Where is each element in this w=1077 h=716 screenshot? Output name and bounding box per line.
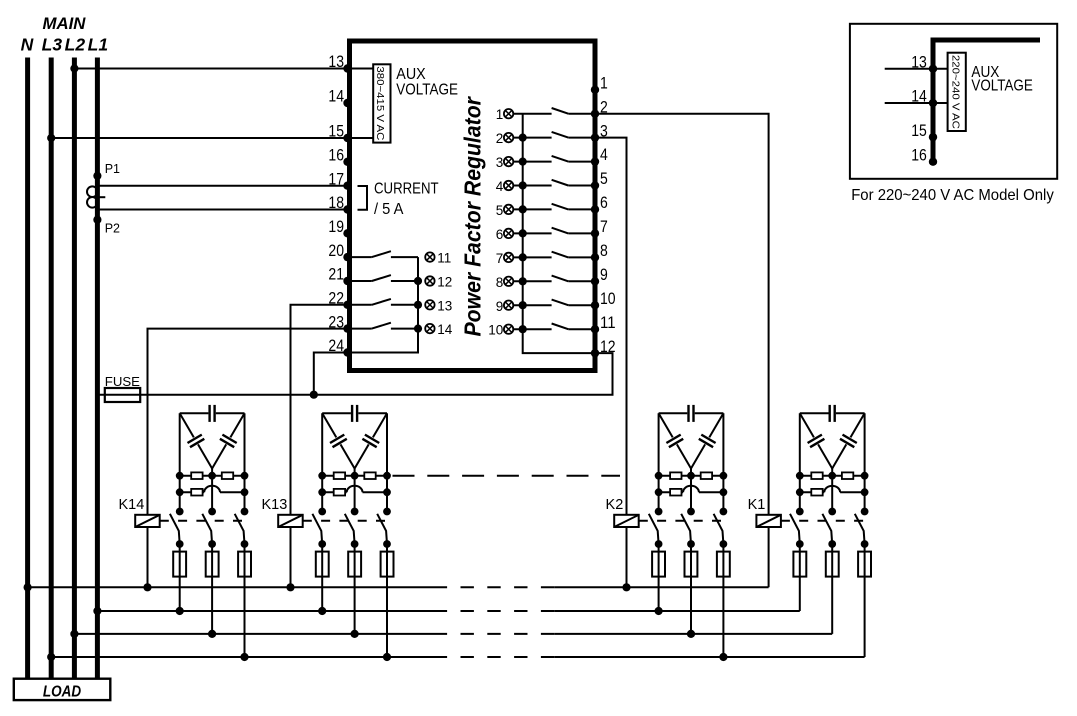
svg-text:21: 21 bbox=[328, 266, 344, 284]
wire bank 4 left leg vertical bbox=[799, 413, 801, 511]
wire common bus contacts 11-14 to pin 24 bbox=[350, 257, 419, 352]
wire bank 3 left leg vertical bbox=[658, 413, 660, 511]
linkage K2 (dashed) bbox=[639, 520, 726, 522]
label K13 bbox=[261, 497, 287, 513]
switch contact K2-2 bbox=[681, 508, 695, 548]
node bank 1 leg 1 to bus bbox=[176, 607, 184, 615]
pin 13 bbox=[328, 53, 351, 73]
fuse/reactor bank 4 leg 3 bbox=[858, 544, 871, 657]
contactor coil K13 bbox=[278, 515, 303, 527]
capacitor C2c (diagonal) bbox=[355, 413, 387, 468]
relay contact 7 (pin 8) bbox=[513, 252, 595, 258]
relay contact 12 (pin 21) bbox=[350, 275, 419, 281]
svg-text:LOAD: LOAD bbox=[43, 684, 82, 701]
wire CT to pin 17 bbox=[97, 185, 350, 187]
switch contact K14-2 bbox=[202, 508, 216, 548]
pin 24 bbox=[328, 337, 351, 356]
relay contact 14 (pin 23) bbox=[350, 323, 419, 329]
contactor coil K1 bbox=[756, 515, 781, 527]
svg-text:K1: K1 bbox=[748, 497, 766, 513]
wire L2 line bbox=[72, 58, 77, 679]
discharge resistor R1c (row 2) with wire hop bbox=[176, 486, 249, 496]
wire bus L2 feeder bbox=[70, 630, 832, 638]
svg-text:K13: K13 bbox=[261, 497, 287, 513]
wire bus L3 feeder bbox=[47, 653, 865, 661]
svg-text:K2: K2 bbox=[606, 497, 624, 513]
svg-text:N: N bbox=[21, 35, 34, 55]
lamp terminal 7 bbox=[496, 251, 527, 266]
fuse/reactor bank 3 leg 3 bbox=[717, 544, 730, 657]
relay contact 1 (pin 2) bbox=[513, 108, 595, 114]
svg-text:L3: L3 bbox=[42, 35, 63, 55]
node bank 3 leg 1 to bus bbox=[655, 607, 663, 615]
contactor coil K2 bbox=[614, 515, 639, 527]
regulator box U1 Power Factor Regulator bbox=[350, 41, 596, 371]
capacitor C4b (diagonal) bbox=[800, 413, 832, 468]
svg-text:9: 9 bbox=[600, 266, 608, 284]
switch contact K13-3 bbox=[377, 508, 391, 548]
relay contact 13 (pin 22) bbox=[350, 299, 419, 305]
svg-text:Power Factor Regulator: Power Factor Regulator bbox=[460, 95, 486, 336]
label K2 bbox=[606, 497, 624, 513]
node junction L2 pin13 bbox=[70, 64, 78, 72]
label MAIN bbox=[43, 14, 87, 33]
svg-text:3: 3 bbox=[496, 155, 504, 170]
lamp terminal 10 bbox=[488, 323, 527, 338]
wire bus L1 feeder bbox=[93, 607, 800, 615]
relay contact 9 (pin 10) bbox=[513, 300, 595, 306]
lamp terminal 9 bbox=[496, 299, 527, 314]
svg-text:6: 6 bbox=[496, 227, 504, 242]
pin 15 bbox=[328, 123, 351, 143]
wire pin 24 to fuse line bbox=[314, 353, 350, 395]
inset aux voltage block 220-240 V AC bbox=[948, 53, 966, 131]
pin 18 bbox=[328, 194, 351, 214]
pin 9 bbox=[591, 266, 608, 285]
relay contact 6 (pin 7) bbox=[513, 228, 595, 234]
relay contact 2 (pin 3) bbox=[513, 132, 595, 138]
svg-text:13: 13 bbox=[437, 298, 452, 313]
node junction L3 pin15 bbox=[47, 134, 55, 142]
switch contact K14-3 bbox=[235, 508, 249, 548]
wire bank 3 center leg vertical bbox=[690, 469, 692, 512]
node P1 bbox=[93, 162, 120, 180]
svg-text:10: 10 bbox=[488, 323, 503, 338]
pin 4 bbox=[591, 146, 608, 166]
lamp terminal 3 bbox=[496, 155, 527, 170]
lamp terminal 8 bbox=[496, 275, 527, 290]
pin 14 bbox=[328, 88, 351, 108]
wire bank 1 right leg vertical bbox=[244, 413, 246, 511]
svg-text:5: 5 bbox=[496, 203, 504, 218]
switch contact K1-3 bbox=[855, 508, 869, 548]
discharge resistors R4a R4b (row 1) bbox=[796, 472, 869, 480]
fuse/reactor bank 1 leg 3 bbox=[238, 544, 251, 657]
contactor coil K14 bbox=[135, 515, 160, 527]
fuse/reactor bank 2 leg 3 bbox=[381, 544, 394, 657]
switch contact K1-1 bbox=[790, 508, 804, 548]
relay contact 11 (pin 20) bbox=[350, 251, 419, 257]
wire L3 line bbox=[49, 58, 54, 679]
switch contact K1-2 bbox=[822, 508, 836, 548]
svg-text:FUSE: FUSE bbox=[105, 374, 140, 389]
svg-text:7: 7 bbox=[600, 218, 608, 236]
switch contact K2-1 bbox=[649, 508, 663, 548]
wire pin 15 from L3 to aux voltage input bbox=[51, 137, 373, 139]
node bank 1 leg 2 to bus bbox=[208, 630, 216, 638]
pin 7 bbox=[591, 218, 608, 237]
svg-text:P2: P2 bbox=[105, 222, 120, 236]
pin 19 bbox=[328, 218, 351, 238]
discharge resistors R2a R2b (row 1) bbox=[318, 472, 391, 480]
wire bank 3 right leg vertical bbox=[722, 413, 724, 511]
switch contact K13-1 bbox=[312, 508, 326, 548]
wire bank 1 center leg vertical bbox=[211, 469, 213, 512]
svg-text:VOLTAGE: VOLTAGE bbox=[396, 81, 458, 98]
fuse/reactor bank 3 leg 1 bbox=[652, 544, 665, 611]
node coil K2 to bus N bbox=[622, 583, 630, 591]
pin 17 bbox=[328, 170, 351, 190]
capacitor C4a (top) bbox=[800, 405, 865, 422]
lamp terminal 11 bbox=[425, 251, 451, 266]
svg-text:7: 7 bbox=[496, 251, 504, 266]
relay contact 10 (pin 11) bbox=[513, 324, 595, 330]
lamp terminal 1 bbox=[496, 107, 514, 122]
svg-text:CURRENT: CURRENT bbox=[374, 180, 439, 197]
svg-text:4: 4 bbox=[496, 179, 504, 194]
svg-text:380~415 V AC: 380~415 V AC bbox=[374, 66, 386, 140]
svg-text:9: 9 bbox=[496, 299, 504, 314]
wire pin 13 from L2 to aux voltage input bbox=[74, 68, 373, 70]
svg-text:2: 2 bbox=[496, 131, 504, 146]
svg-text:/ 5 A: / 5 A bbox=[374, 201, 404, 218]
wire pin 23 to coil K14 bbox=[148, 329, 350, 588]
pin 6 bbox=[591, 194, 608, 213]
pin 21 bbox=[328, 266, 351, 285]
capacitor C3c (diagonal) bbox=[691, 413, 723, 468]
discharge resistors R3a R3b (row 1) bbox=[655, 472, 728, 480]
svg-text:L2: L2 bbox=[65, 35, 86, 55]
node bank 2 leg 1 to bus bbox=[318, 607, 326, 615]
wire bank 2 right leg vertical bbox=[386, 413, 388, 511]
relay contact 3 (pin 4) bbox=[513, 156, 595, 162]
label AUX VOLTAGE bbox=[396, 66, 458, 98]
capacitor C1b (diagonal) bbox=[180, 413, 212, 468]
fuse/reactor bank 4 leg 1 bbox=[793, 544, 806, 611]
fuse/reactor bank 1 leg 2 bbox=[206, 544, 219, 634]
lamp terminal 6 bbox=[496, 227, 527, 242]
svg-text:16: 16 bbox=[911, 146, 927, 164]
label L3 bbox=[42, 35, 63, 55]
svg-text:6: 6 bbox=[600, 194, 608, 212]
pin 23 bbox=[328, 313, 351, 333]
label CURRENT / 5 A with bracket bbox=[358, 180, 439, 218]
capacitor C1a (top) bbox=[180, 405, 245, 422]
label K14 bbox=[118, 497, 144, 513]
node pin 24 fuse line junction bbox=[310, 391, 318, 399]
lamp terminal 14 bbox=[414, 322, 453, 337]
svg-text:11: 11 bbox=[437, 251, 451, 266]
linkage K1 (dashed) bbox=[781, 520, 868, 522]
lamp terminal 4 bbox=[496, 179, 527, 194]
node coil K13 to bus N bbox=[286, 583, 294, 591]
aux voltage block 380-415 V AC bbox=[373, 64, 390, 142]
pin 12 bbox=[591, 338, 616, 358]
svg-text:4: 4 bbox=[600, 146, 608, 164]
node bank 3 leg 2 to bus bbox=[687, 630, 695, 638]
label K1 bbox=[748, 497, 766, 513]
pin 3 bbox=[591, 122, 608, 142]
svg-text:K14: K14 bbox=[118, 497, 144, 513]
wire bank 1 left leg vertical bbox=[179, 413, 181, 511]
discharge resistor R4c (row 2) with wire hop bbox=[796, 486, 869, 496]
svg-text:VOLTAGE: VOLTAGE bbox=[971, 78, 1032, 95]
pin 20 bbox=[328, 242, 351, 262]
label L1 bbox=[88, 35, 108, 55]
capacitor C3b (diagonal) bbox=[659, 413, 691, 468]
svg-text:For 220~240 V AC Model Only: For 220~240 V AC Model Only bbox=[851, 187, 1054, 204]
wire dashed continuation discharge row bbox=[393, 475, 621, 477]
capacitor C2b (diagonal) bbox=[322, 413, 354, 468]
svg-text:L1: L1 bbox=[88, 35, 108, 55]
fuse/reactor bank 3 leg 2 bbox=[685, 544, 698, 634]
fuse/reactor bank 2 leg 2 bbox=[348, 544, 361, 634]
svg-text:1: 1 bbox=[496, 107, 504, 122]
switch contact K2-3 bbox=[714, 508, 728, 548]
wire common bus contacts 1-10 to pin 12 bbox=[523, 114, 595, 353]
pin 5 bbox=[591, 170, 608, 190]
inset pin 16 bbox=[911, 146, 937, 166]
switch contact K14-1 bbox=[170, 508, 184, 548]
relay contact 5 (pin 6) bbox=[513, 204, 595, 210]
fuse FUSE bbox=[105, 374, 140, 402]
node bank 2 leg 3 to bus bbox=[383, 653, 391, 661]
inset box 220-240V model bbox=[850, 24, 1057, 179]
svg-text:P1: P1 bbox=[105, 162, 120, 176]
label N bbox=[21, 35, 34, 55]
discharge resistor R2c (row 2) with wire hop bbox=[318, 486, 391, 496]
capacitor C3a (top) bbox=[659, 405, 724, 422]
wire pin 3 to coil K2 bbox=[595, 138, 627, 588]
fuse/reactor bank 4 leg 2 bbox=[826, 544, 839, 634]
label L2 bbox=[65, 35, 86, 55]
lamp terminal 12 bbox=[414, 275, 452, 290]
inset wire pin 13 bbox=[885, 68, 948, 70]
wire bank 2 left leg vertical bbox=[321, 413, 323, 511]
pin 8 bbox=[591, 242, 608, 262]
switch contact K13-2 bbox=[345, 508, 359, 548]
discharge resistor R3c (row 2) with wire hop bbox=[655, 486, 728, 496]
node bank 2 leg 2 to bus bbox=[351, 630, 359, 638]
fuse/reactor bank 2 leg 1 bbox=[316, 544, 329, 611]
capacitor C1c (diagonal) bbox=[212, 413, 244, 468]
lamp terminal 2 bbox=[496, 131, 527, 146]
inset wire pin 14 bbox=[885, 102, 948, 104]
relay contact 4 (pin 5) bbox=[513, 180, 595, 186]
svg-text:20: 20 bbox=[328, 242, 344, 260]
node bank 3 leg 3 to bus bbox=[719, 653, 727, 661]
inset label AUX VOLTAGE bbox=[971, 64, 1032, 95]
discharge resistors R1a R1b (row 1) bbox=[176, 472, 249, 480]
wire pin 12 to fuse line bbox=[314, 353, 613, 395]
pin 10 bbox=[591, 290, 616, 310]
svg-text:14: 14 bbox=[328, 88, 344, 106]
label Power Factor Regulator bbox=[460, 95, 486, 336]
wire CT to pin 18 bbox=[97, 209, 350, 211]
capacitor C4c (diagonal) bbox=[832, 413, 864, 468]
svg-text:12: 12 bbox=[437, 275, 452, 290]
svg-text:10: 10 bbox=[600, 290, 616, 308]
wire bus N (coil return) bbox=[24, 583, 769, 591]
pin 16 bbox=[328, 147, 351, 167]
load box LOAD bbox=[14, 679, 111, 701]
node P2 bbox=[93, 216, 120, 236]
wire bank 4 right leg vertical bbox=[864, 413, 866, 511]
wire N line bbox=[25, 58, 30, 679]
svg-text:8: 8 bbox=[600, 242, 608, 260]
fuse/reactor bank 1 leg 1 bbox=[173, 544, 186, 611]
inset thick supply wire bbox=[933, 40, 1040, 162]
wire L1 line bbox=[95, 58, 100, 679]
wire bank 2 center leg vertical bbox=[354, 469, 356, 512]
svg-text:1: 1 bbox=[600, 74, 608, 92]
svg-text:MAIN: MAIN bbox=[43, 14, 87, 33]
svg-text:5: 5 bbox=[600, 170, 608, 188]
svg-text:19: 19 bbox=[328, 218, 344, 236]
relay contact 8 (pin 9) bbox=[513, 276, 595, 282]
linkage K14 (dashed) bbox=[160, 520, 248, 522]
wire pin 2 to coil K1 bbox=[595, 114, 769, 588]
svg-text:11: 11 bbox=[600, 314, 616, 332]
wire bank 4 center leg vertical bbox=[831, 469, 833, 512]
inset caption bbox=[851, 187, 1054, 204]
pin 1 bbox=[591, 74, 608, 94]
pin 11 bbox=[591, 314, 616, 334]
inset pin 15 bbox=[911, 122, 937, 142]
svg-text:16: 16 bbox=[328, 147, 344, 165]
node coil K14 to bus N bbox=[143, 583, 151, 591]
lamp terminal 13 bbox=[414, 298, 452, 313]
svg-text:15: 15 bbox=[911, 122, 927, 140]
pin 2 bbox=[591, 98, 608, 118]
wire pin 22 to coil K13 bbox=[291, 305, 350, 588]
node bank 1 leg 3 to bus bbox=[240, 653, 248, 661]
svg-text:220~240 V AC: 220~240 V AC bbox=[950, 55, 962, 129]
wire L1 to fuse line bbox=[97, 394, 313, 396]
capacitor C2a (top) bbox=[322, 405, 387, 422]
inset pin 13 bbox=[911, 53, 937, 73]
current transformer CT winding bbox=[87, 186, 105, 207]
pin 22 bbox=[328, 290, 351, 309]
svg-text:8: 8 bbox=[496, 275, 504, 290]
inset pin 14 bbox=[911, 88, 937, 108]
lamp terminal 5 bbox=[496, 203, 527, 218]
svg-text:14: 14 bbox=[437, 322, 453, 337]
linkage K13 (dashed) bbox=[303, 520, 390, 522]
